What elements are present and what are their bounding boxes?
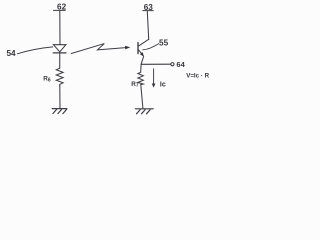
wire LED cathode to resistor R6 bbox=[59, 53, 61, 68]
wire junction to output terminal bbox=[141, 63, 171, 65]
leader line 55 to transistor bbox=[143, 44, 159, 50]
transistor Q (55) collector lead bbox=[138, 39, 148, 46]
svg-text:Ic: Ic bbox=[160, 81, 166, 88]
LED D (54) anode triangle bbox=[53, 45, 66, 52]
leader line 54 to LED bbox=[17, 47, 53, 54]
ground (right) bbox=[135, 108, 153, 110]
LED cathode bar bbox=[53, 52, 66, 54]
current Ic arrow bbox=[153, 69, 155, 84]
output terminal circle 64 bbox=[171, 63, 174, 66]
svg-text:R6: R6 bbox=[43, 76, 51, 84]
wire 62 to LED anode bbox=[59, 11, 61, 45]
light emission zigzag arrow (LED to phototransistor) bbox=[71, 44, 125, 54]
svg-text:55: 55 bbox=[159, 39, 169, 48]
wire emitter to junction bbox=[141, 57, 144, 65]
node 63 tick bbox=[143, 10, 153, 12]
transistor emitter lead bbox=[138, 50, 142, 55]
node 62 tick bbox=[54, 9, 66, 11]
transistor emitter arrowhead bbox=[140, 52, 144, 57]
wire R7 to ground bbox=[141, 85, 143, 109]
wire R6 to ground bbox=[59, 86, 61, 109]
resistor R6 bbox=[56, 68, 63, 86]
svg-text:R7: R7 bbox=[131, 81, 139, 89]
svg-text:54: 54 bbox=[6, 49, 16, 58]
svg-text:V=Ic · R: V=Ic · R bbox=[186, 73, 209, 80]
svg-text:64: 64 bbox=[176, 60, 185, 69]
wire 63 to collector bbox=[147, 11, 148, 39]
wire junction down to resistor R7 bbox=[140, 64, 142, 72]
resistor R7 bbox=[138, 72, 143, 84]
transistor base bar bbox=[137, 43, 139, 54]
ground (left) bbox=[52, 108, 67, 110]
